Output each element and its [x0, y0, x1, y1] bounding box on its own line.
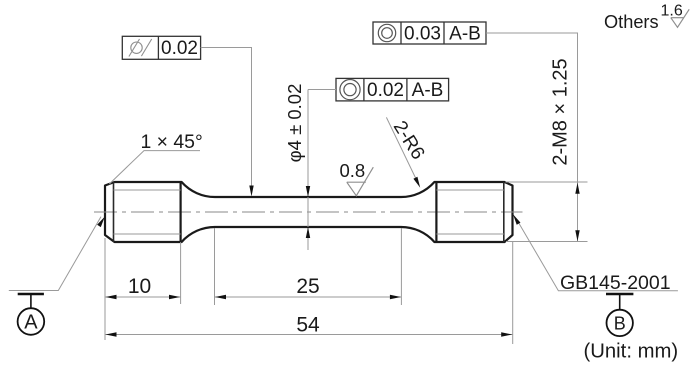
datum A leader to left end face	[9, 217, 105, 291]
left shoulder edge	[180, 182, 182, 242]
svg-text:10: 10	[128, 275, 151, 298]
feature control frame concentricity 0.03 A-B	[373, 22, 486, 45]
specimen outline (dog-bone body)	[105, 182, 513, 242]
right shoulder edge	[435, 182, 437, 242]
svg-text:GB145-2001: GB145-2001	[560, 272, 671, 294]
svg-text:0.03: 0.03	[404, 24, 441, 45]
dimension 10	[105, 238, 181, 340]
svg-text:B: B	[614, 313, 626, 333]
svg-text:A: A	[24, 312, 38, 334]
svg-text:0.02: 0.02	[367, 80, 404, 101]
phi4 dimension line vertical	[306, 90, 310, 251]
svg-text:1.6: 1.6	[661, 3, 683, 20]
svg-text:(Unit: mm): (Unit: mm)	[584, 341, 679, 363]
svg-text:1 × 45°: 1 × 45°	[141, 131, 203, 153]
roughness symbol 0.8 on gauge	[339, 160, 373, 196]
datum B symbol	[606, 294, 633, 336]
svg-text:0.8: 0.8	[339, 160, 365, 181]
Others + roughness 1.6 (top right)	[604, 3, 689, 33]
centerline (horizontal axis of specimen)	[94, 211, 523, 213]
leader 2-R6	[386, 117, 420, 187]
dimension 54	[105, 241, 513, 344]
svg-text:54: 54	[296, 314, 320, 337]
svg-text:25: 25	[296, 275, 319, 298]
svg-text:A-B: A-B	[412, 80, 444, 101]
left grip thread minor line bottom	[114, 233, 181, 235]
left chamfer edge line	[113, 182, 115, 242]
svg-text:2-M8 × 1.25: 2-M8 × 1.25	[550, 58, 572, 165]
thread dimension 2-M8 x 1.25	[506, 182, 588, 242]
feature control frame cylindricity 0.02	[122, 36, 200, 59]
GB145-2001 leader from right chamfer	[513, 214, 678, 290]
leader from concentricity frame to phi4 dimension line	[308, 89, 336, 91]
right grip thread minor line top	[436, 189, 503, 191]
dimension 25	[215, 228, 402, 305]
svg-text:φ4 ± 0.02: φ4 ± 0.02	[284, 84, 305, 163]
left grip thread minor line top	[114, 189, 181, 191]
leader from cylindricity frame to gauge top	[201, 48, 254, 197]
right chamfer edge line	[503, 182, 505, 242]
svg-text:Others: Others	[604, 12, 659, 32]
right grip thread minor line bottom	[436, 233, 503, 235]
leader from 0.03 frame to thread dimension line	[486, 33, 578, 182]
svg-text:0.02: 0.02	[161, 38, 198, 59]
datum A symbol	[18, 294, 45, 335]
feature control frame concentricity 0.02 A-B	[336, 78, 449, 101]
svg-text:A-B: A-B	[449, 24, 481, 45]
chamfer label 1 x 45deg	[109, 131, 202, 184]
